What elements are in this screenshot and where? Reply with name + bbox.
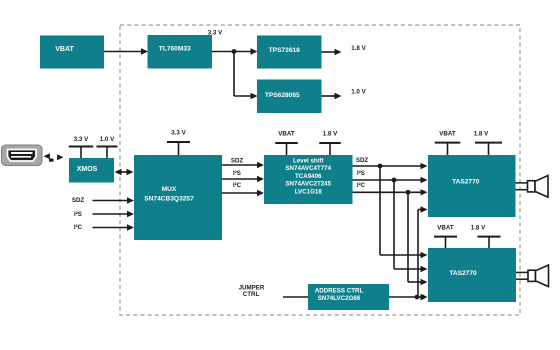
system board boundary (dashed) (120, 25, 520, 315)
wire I2C MUX to level shift (222, 190, 264, 196)
node address junction 1 (415, 295, 420, 300)
svg-text:I²S: I²S (74, 211, 82, 218)
wire I2S to TAS2770-A (353, 177, 428, 183)
speaker A (516, 176, 549, 198)
block TPS628065 buck (257, 80, 322, 114)
svg-text:1.8 V: 1.8 V (471, 224, 486, 231)
svg-text:XMOS: XMOS (77, 166, 98, 173)
node address junction 2 (420, 295, 425, 300)
svg-text:VBAT: VBAT (437, 224, 454, 231)
wire SDZ MUX to level shift (222, 162, 264, 168)
wire TPS628065 1.0V output (322, 93, 342, 99)
block VBAT input (40, 36, 104, 69)
power rail VBAT over level shift (275, 131, 298, 155)
wire jumper to address ctrl (283, 296, 308, 298)
node I2S junction (392, 178, 397, 183)
power rail 1.0V over XMOS (97, 136, 118, 158)
svg-text:TPS628065: TPS628065 (265, 92, 300, 99)
block TAS2770 A (428, 155, 516, 217)
svg-text:TL760M33: TL760M33 (159, 46, 191, 53)
block ADDRESS CTRL SN74LVC2G66 (308, 284, 389, 310)
block TL760M33 LDO (148, 35, 213, 69)
svg-text:SN74AVC2T245: SN74AVC2T245 (285, 181, 331, 188)
svg-text:1.8 V: 1.8 V (351, 45, 366, 52)
svg-text:SN74AVC4T774: SN74AVC4T774 (285, 165, 331, 172)
power rail 3.3V over XMOS (69, 136, 94, 158)
svg-text:MUX: MUX (162, 186, 177, 193)
label JUMPER CTRL (239, 284, 265, 297)
USB connector icon (2, 145, 43, 166)
block TAS2770 B (428, 248, 516, 302)
svg-text:SDZ: SDZ (356, 157, 369, 164)
svg-text:1.0 V: 1.0 V (351, 88, 366, 95)
wire I2C down to TAS2770-B (408, 192, 428, 285)
svg-text:1.0 V: 1.0 V (100, 136, 115, 143)
wire SDZ into MUX (93, 197, 135, 203)
svg-text:I²C: I²C (74, 224, 83, 231)
svg-text:SN74CB3Q3257: SN74CB3Q3257 (144, 195, 194, 202)
svg-text:ADDRESS CTRL: ADDRESS CTRL (315, 287, 364, 294)
svg-text:VBAT: VBAT (55, 46, 74, 53)
power rail 1.8V over TAS2770-A (474, 130, 502, 155)
wire TPS73618 1.8V output (322, 49, 342, 55)
svg-text:1.8 V: 1.8 V (474, 130, 489, 137)
node SDZ junction (378, 164, 383, 169)
svg-text:CTRL: CTRL (243, 291, 260, 298)
svg-text:SDZ: SDZ (231, 158, 244, 165)
svg-text:I²S: I²S (233, 170, 241, 177)
block TPS73618 LDO (257, 36, 322, 69)
svg-text:VBAT: VBAT (439, 130, 456, 137)
svg-text:TCA9406: TCA9406 (295, 173, 322, 180)
svg-text:3.3 V: 3.3 V (171, 130, 186, 137)
wire VBAT to TL760M33 (104, 48, 148, 54)
wire address ctrl to TAS2770-B (389, 294, 428, 300)
power rail 1.8V over TAS2770-B (471, 224, 501, 248)
speaker B (516, 265, 549, 287)
svg-text:TAS2770: TAS2770 (452, 178, 480, 185)
wire I2S into MUX (93, 211, 135, 217)
svg-text:TAS2770: TAS2770 (449, 270, 477, 277)
wire I2C to TAS2770-A (353, 189, 428, 195)
power rail VBAT over TAS2770-A (435, 130, 461, 155)
svg-text:VBAT: VBAT (278, 131, 295, 138)
node I2C junction (406, 190, 411, 195)
wire address up to TAS2770-A (418, 206, 428, 297)
power rail 3.3V over MUX (167, 130, 190, 155)
wire TL760M33 3.3V output (212, 48, 258, 54)
block level shift (264, 155, 353, 204)
bidirectional wire XMOS to MUX (115, 169, 134, 175)
block MUX SN74CB3Q3257 (134, 155, 222, 240)
wire I2S down to TAS2770-B (394, 180, 428, 272)
svg-text:Level shift: Level shift (293, 157, 324, 164)
bidirectional link USB to XMOS (44, 153, 64, 162)
svg-text:1.8 V: 1.8 V (323, 131, 338, 138)
wire I2C into MUX (93, 224, 135, 230)
svg-text:I²C: I²C (357, 182, 366, 189)
svg-text:3.3 V: 3.3 V (208, 30, 223, 37)
wire SDZ to TAS2770-A (353, 163, 428, 169)
block XMOS processor (69, 158, 114, 183)
svg-text:I²C: I²C (233, 182, 242, 189)
wire SDZ down to TAS2770-B (380, 166, 428, 258)
power rail VBAT over TAS2770-B (434, 224, 457, 248)
svg-text:I²S: I²S (357, 170, 365, 177)
node 3.3V junction (232, 49, 237, 54)
wire I2S MUX to level shift (222, 176, 264, 182)
svg-text:TPS73618: TPS73618 (269, 47, 300, 54)
svg-text:LVC1G18: LVC1G18 (295, 188, 323, 195)
svg-text:3.3 V: 3.3 V (74, 136, 89, 143)
svg-text:SN74LVC2G66: SN74LVC2G66 (318, 295, 361, 302)
power rail 1.8V over level shift (319, 131, 341, 155)
svg-text:SDZ: SDZ (72, 197, 85, 204)
wire 3.3V down to TPS628065 (234, 52, 258, 100)
